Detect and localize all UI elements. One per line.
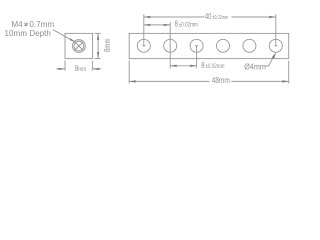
8mm bottom dimension line — [170, 65, 196, 67]
extension line hole2 through — [169, 22, 171, 68]
extension line hole1 up — [143, 14, 145, 46]
thread cross mark X — [74, 42, 83, 51]
svg-text:M4∗0.7mm: M4∗0.7mm — [11, 20, 54, 29]
arrow 8bot right — [190, 65, 197, 67]
hole 2 — [164, 39, 177, 52]
arrow square-height top — [97, 33, 99, 40]
tapped hole outer circle (M4 major dia) — [73, 40, 86, 53]
arrow 40 right — [269, 16, 276, 18]
hole 4 — [217, 39, 230, 52]
svg-text:10mm Depth: 10mm Depth — [5, 29, 51, 38]
svg-text:Ø4mm: Ø4mm — [244, 62, 266, 72]
hole 1 — [137, 39, 150, 52]
svg-text:8mm: 8mm — [102, 38, 112, 52]
svg-text:40±0.02mm: 40±0.02mm — [205, 12, 228, 21]
svg-text:8±0.02mm: 8±0.02mm — [201, 61, 225, 70]
svg-text:8±0.02mm: 8±0.02mm — [175, 20, 199, 29]
hole 3 — [190, 39, 203, 52]
square width ext line left — [64, 61, 66, 71]
svg-text:8mm: 8mm — [75, 64, 86, 73]
extension line hole3 down — [196, 46, 198, 69]
arrow 8top right — [164, 24, 171, 26]
arrow 40 left — [144, 16, 151, 18]
tapped hole inner circle (minor dia) — [74, 41, 84, 51]
arrow square-height bottom — [97, 52, 99, 59]
arrow leader tapped hole — [70, 38, 76, 42]
arrow 48 left — [129, 80, 136, 82]
arrow 8top left — [144, 24, 151, 26]
leader line to tapped hole — [53, 30, 75, 42]
48mm extension line right — [288, 61, 290, 84]
arrow 48 right — [282, 80, 289, 82]
svg-text:48mm: 48mm — [212, 75, 230, 85]
hole6 center tick — [274, 45, 277, 47]
arrow square-width left (outside, pointing right) — [59, 68, 66, 70]
square width ext line right — [92, 61, 94, 71]
extension line hole6 up — [275, 14, 277, 46]
hole1 center tick — [142, 45, 145, 47]
square end view body — [65, 33, 93, 58]
arrow leader diameter — [272, 52, 276, 58]
front view body rectangle — [129, 33, 289, 58]
hole 6 — [269, 39, 282, 52]
square height dim line — [97, 33, 99, 58]
arrow 8bot left — [170, 65, 177, 67]
48mm extension line left — [128, 61, 130, 84]
square height ext stub bottom — [95, 58, 101, 60]
hole 5 — [243, 39, 256, 52]
square width dim line outside segs — [56, 68, 101, 70]
8mm top dimension line — [144, 24, 170, 26]
arrow square-width right (outside, pointing left) — [93, 68, 100, 70]
hole3 center tick — [195, 45, 198, 47]
square height ext stub top — [95, 32, 101, 34]
40mm dimension line — [144, 16, 276, 18]
diameter leader line — [265, 53, 276, 66]
48mm dimension line — [129, 80, 289, 82]
